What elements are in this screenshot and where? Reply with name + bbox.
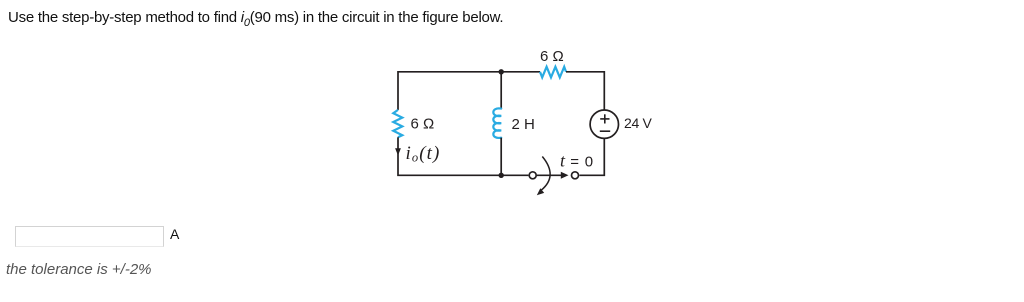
wire: left branch bottom + bottom-left corner + bottom wire to switch: [398, 137, 528, 175]
resistor R1 6ohm (top, horizontal): [540, 67, 566, 78]
wire: source bottom + bottom-right corner + wire to switch: [580, 138, 605, 175]
junction node bottom: [499, 173, 504, 178]
wire: top node to resistor R1: [501, 71, 540, 73]
tolerance note: [6, 261, 152, 278]
wire: left branch top + top-left corner + top wire to node: [398, 72, 501, 110]
svg-text:2 H: 2 H: [512, 116, 535, 133]
switch arc arrow head: [537, 188, 544, 195]
minus sign of source V1: [600, 130, 610, 132]
junction node top: [499, 69, 504, 74]
unit label A: [170, 226, 179, 242]
problem statement text: [8, 9, 503, 29]
inductor L1 2H: [493, 108, 501, 138]
wire: middle branch bottom: [500, 138, 502, 176]
svg-text:6 Ω: 6 Ω: [411, 116, 435, 133]
current arrow head on left wire: [395, 148, 401, 155]
switch blade wire: [537, 174, 562, 176]
wire: middle branch top: [500, 72, 502, 109]
voltage source V1 circle: [590, 110, 618, 138]
wire: resistor R1 to top-right corner down to source: [566, 72, 604, 110]
svg-text:24 V: 24 V: [624, 115, 653, 131]
plus sign of source V1: [600, 114, 610, 131]
switch terminal circle right: [572, 172, 579, 179]
svg-text:io(t): io(t): [406, 143, 441, 165]
switch motion arc: [541, 157, 550, 191]
svg-text:6 Ω: 6 Ω: [540, 48, 564, 65]
switch terminal circle left: [529, 172, 536, 179]
answer input box: [15, 226, 164, 247]
switch blade arrow head: [561, 172, 569, 179]
svg-text:t=0: t=0: [560, 151, 593, 171]
resistor R2 6ohm (left, vertical): [393, 110, 402, 137]
